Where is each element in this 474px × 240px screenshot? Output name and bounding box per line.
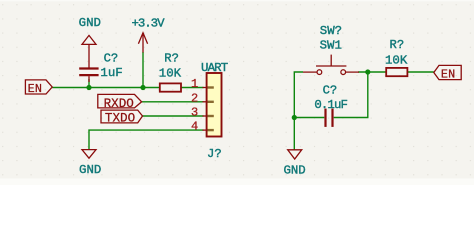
svg-text:4: 4: [191, 120, 198, 134]
global label TXDO: [101, 110, 143, 126]
resistor R2: [386, 68, 407, 76]
label GND bottom right: [283, 164, 305, 178]
label 10K right: [385, 53, 408, 67]
svg-text:UART: UART: [201, 61, 228, 75]
svg-text:TXDO: TXDO: [105, 112, 135, 126]
svg-text:10K: 10K: [159, 66, 182, 80]
svg-text:RXDO: RXDO: [104, 97, 134, 111]
svg-text:C?: C?: [104, 51, 119, 65]
wire switch right to junction: [358, 71, 386, 73]
label 10K left: [159, 66, 182, 80]
label SW1: [320, 39, 342, 53]
capacitor C1: [79, 69, 98, 83]
label 1uF: [100, 66, 122, 80]
junction at +3.3V: [140, 85, 145, 90]
wire RXDO to pin2: [142, 101, 204, 103]
wire EN to R1: [52, 87, 160, 89]
grid dots: [0, 0, 474, 179]
wire junction to C2: [294, 117, 324, 119]
svg-text:R?: R?: [390, 38, 405, 52]
label R? right: [390, 38, 405, 52]
svg-text:GND: GND: [283, 164, 305, 178]
bottom white strip: [0, 178, 474, 185]
label C? right: [323, 84, 338, 98]
svg-text:C?: C?: [323, 84, 338, 98]
label GND top: [79, 16, 101, 30]
power symbol +3.3V: [138, 33, 147, 53]
wire R1 to J1 pin1: [181, 87, 204, 89]
top white line: [0, 0, 474, 1]
switch SW1: [303, 55, 359, 75]
power flag GND bottom left: [82, 150, 96, 159]
wire C1 to junction: [88, 79, 90, 88]
svg-text:EN: EN: [28, 82, 43, 96]
label +3.3V: [132, 16, 166, 30]
global label EN left: [25, 80, 52, 96]
label J?: [207, 147, 222, 161]
label SW?: [320, 24, 342, 38]
label UART: [201, 61, 228, 75]
svg-text:EN: EN: [441, 68, 456, 82]
svg-text:GND: GND: [79, 16, 101, 30]
resistor R1: [160, 83, 181, 91]
label 0.1uF: [314, 98, 348, 112]
svg-text:SW1: SW1: [320, 39, 342, 53]
wire switch left down: [294, 72, 303, 118]
svg-text:GND: GND: [79, 163, 101, 177]
svg-text:10K: 10K: [385, 53, 408, 67]
pin 1: [191, 77, 214, 91]
wire pin4 to GND: [89, 130, 204, 149]
global label RXDO: [98, 94, 142, 111]
global label EN right: [434, 65, 461, 81]
label GND bottom left: [79, 163, 101, 177]
junction right: [365, 69, 370, 74]
power flag GND top: [82, 35, 96, 67]
svg-text:0.1uF: 0.1uF: [314, 98, 348, 112]
svg-text:R?: R?: [164, 52, 179, 66]
svg-text:3: 3: [191, 106, 198, 120]
power flag GND bottom right: [288, 150, 302, 159]
connector J1: [207, 73, 222, 137]
wire R2 to EN: [408, 71, 434, 73]
label R? left: [164, 52, 179, 66]
wire C2 right up to junction: [334, 72, 368, 118]
junction at C1: [86, 85, 91, 90]
pin 4: [191, 120, 214, 134]
wire TXDO to pin3: [143, 115, 204, 117]
svg-text:1uF: 1uF: [100, 66, 122, 80]
svg-text:2: 2: [191, 91, 198, 105]
svg-text:1: 1: [191, 77, 198, 91]
svg-text:+3.3V: +3.3V: [132, 16, 166, 30]
pin 2: [191, 91, 214, 105]
wire +3.3V stem: [142, 52, 144, 88]
svg-text:SW?: SW?: [320, 24, 342, 38]
junction at C2 left: [292, 115, 297, 120]
wire junction down to GND: [293, 118, 295, 150]
label C?: [104, 51, 119, 65]
capacitor C2: [326, 109, 333, 127]
svg-text:J?: J?: [207, 147, 222, 161]
pin 3: [191, 106, 214, 120]
